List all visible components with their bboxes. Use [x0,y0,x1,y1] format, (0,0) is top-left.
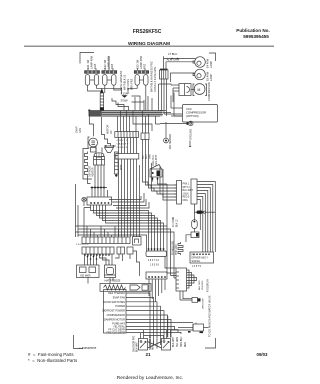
lamp indicator [82,197,86,206]
label deodorizer [173,241,178,255]
svg-text:FAN: FAN [79,128,82,133]
svg-text:FRS26KF5C: FRS26KF5C [133,29,162,35]
thermistor sensor [164,122,169,143]
wire thermostat feeds [102,117,111,146]
svg-text:LAMP 40W: LAMP 40W [139,55,143,69]
wire bulb E5 feed [166,62,195,82]
svg-text:375W: 375W [121,98,128,102]
label door switch 2 [150,335,155,350]
wire lamp3 drops [128,85,137,94]
label wire harness notes [119,71,134,90]
label bulb E4 [206,58,214,68]
defrost heater bracket [83,149,92,180]
svg-text:TO ICE MAKER AND WATER VALVE: TO ICE MAKER AND WATER VALVE [209,295,212,337]
svg-text:COMPRESSOR: COMPRESSOR [107,313,126,317]
label LT BLU [168,52,177,56]
lamp E23 [134,68,149,85]
label defrost heater [89,165,95,177]
svg-text:HAT FREEZE: HAT FREEZE [105,279,121,283]
relay ice box [77,265,100,278]
node bar A pin dots [84,254,110,256]
central connector block upper [115,132,139,138]
label evap fan [76,126,83,133]
svg-text:SW DOOR FRZ: SW DOOR FRZ [134,335,136,352]
svg-text:YEL RED: YEL RED [202,280,204,290]
svg-text:LT BLU: LT BLU [168,52,177,56]
svg-text:E21 1W: E21 1W [86,59,90,69]
connector P1 box right [191,179,197,204]
svg-text:1 BLK: 1 BLK [183,193,190,195]
connector strip right of thermostat [115,152,119,177]
svg-text:Rendered by LeadVenture, Inc.: Rendered by LeadVenture, Inc. [117,375,183,381]
wire heater-thermostat drops [88,176,91,184]
svg-text:E22 1W: E22 1W [103,59,107,69]
svg-text:P5 MULLION: P5 MULLION [173,241,175,255]
bulb lamp E4 [193,57,205,68]
wire interface loops [187,270,197,288]
svg-text:HEATER: HEATER [92,167,95,177]
node fuse arrow [122,95,128,98]
wire trunk band [89,111,164,117]
svg-text:ORG DISP: ORG DISP [203,298,205,309]
label door switch 1 [134,335,139,352]
wire P1 loops [197,182,215,253]
svg-text:DEFROST POWER: DEFROST POWER [103,309,126,313]
svg-text:BLK: BLK [143,154,145,159]
defrost heater zigzag [85,152,88,177]
label fan motor [107,125,114,134]
svg-text:BLK-WHT: BLK-WHT [136,341,138,352]
label freezer lamp 3 [136,55,147,69]
wire bar A drops [85,251,140,276]
wire connector interlinks [119,138,137,154]
label riser bundle [120,164,123,170]
control board box [104,290,127,334]
svg-text:DOOR SWITCHES: DOOR SWITCHES [103,300,125,304]
capacitor pill [192,204,198,232]
svg-text:YEL GRN: YEL GRN [177,337,179,347]
label freezer lamp 2 [103,55,114,69]
harness freezer bar [100,284,151,292]
svg-text:* = Non-Illustrated Parts: * = Non-Illustrated Parts [28,358,78,363]
label ground [190,129,193,140]
label display feed [203,298,205,309]
connector E8 vertical [100,88,104,112]
wire riser bundle center [119,159,140,237]
label driver pins [192,266,202,268]
svg-text:BLK-WHT: BLK-WHT [173,336,175,347]
connector wide J1 [82,237,130,244]
connector bar B2 [127,247,133,254]
svg-text:FRZ: FRZ [93,64,97,69]
label right bundle [152,154,158,166]
label harn freezer [105,279,121,283]
svg-text:# = Fast-moving Parts: # = Fast-moving Parts [28,352,74,357]
svg-text:LAMP: LAMP [209,74,213,81]
svg-text:1 9 5 3 8: 1 9 5 3 8 [150,265,160,267]
node main junction [88,109,90,111]
label freezer lamp 1 [86,55,97,69]
svg-text:EVAP FAN: EVAP FAN [113,295,125,299]
wire bar L2 drops [149,279,165,302]
svg-text:L-5995395455: L-5995395455 [80,346,97,350]
junction box small [186,232,199,242]
connector P1 box left [175,181,182,205]
svg-text:CONN LT 3.15A 125V: CONN LT 3.15A 125V [153,66,157,92]
svg-text:WHT-BLK HARNESS FRZ: WHT-BLK HARNESS FRZ [150,61,154,92]
wire band to switch conn [160,110,166,112]
svg-text:FRZ: FRZ [143,64,147,69]
wire compressor drop left [170,96,172,109]
svg-text:P1 CONN: P1 CONN [173,216,175,227]
label P1 wire colors [183,184,194,203]
svg-text:E23 1W: E23 1W [136,59,140,69]
label bar L1 pins [148,260,160,267]
svg-text:1 3 5 7 9: 1 3 5 7 9 [192,266,202,268]
svg-text:5995395455: 5995395455 [243,34,269,39]
driver assembly box [190,252,214,263]
alarm buzzer [150,165,167,185]
wire fuse steps [112,98,124,111]
central connector block lower [116,154,139,160]
connector bar B1 [117,247,125,254]
door switch 2 [162,339,171,351]
label doc number [80,346,97,350]
connector display feed [180,296,201,302]
wire fan feed [93,124,95,136]
svg-text:BLK ORG: BLK ORG [199,280,201,290]
svg-text:Publication No.: Publication No. [236,28,269,33]
svg-text:PNK 1: PNK 1 [183,184,190,186]
compressor motor [191,84,207,96]
svg-text:E5 40W: E5 40W [206,71,210,81]
svg-text:DEF THERMO: DEF THERMO [108,291,125,295]
wire interface feeds [165,257,183,301]
label ALM GRN [167,58,180,62]
svg-text:ORG: ORG [183,200,188,202]
lamp E21 [85,68,100,85]
wire mesh horizontals [76,184,175,278]
svg-text:3.15A: 3.15A [121,91,128,95]
svg-text:GROUND: GROUND [190,129,193,140]
svg-text:WHT: WHT [146,153,148,159]
svg-text:COMPRESSOR: COMPRESSOR [207,82,211,101]
svg-text:E4 40W: E4 40W [206,58,210,68]
label P1 vertical [173,216,178,227]
label interface vertical [207,279,210,292]
svg-text:ICE MKR: ICE MKR [80,275,91,278]
fuse 3.15A [121,91,128,95]
door switch 1 [139,339,148,351]
ground stem [189,141,191,147]
top-left corner bracket [80,53,94,64]
svg-text:WHT-BLK 12: WHT-BLK 12 [123,74,127,90]
label bulb E5 [206,71,214,81]
svg-text:4 8 3 7 2 6: 4 8 3 7 2 6 [148,260,160,262]
wire staircase to P1 [143,160,177,200]
wire relay drops [88,278,113,284]
label compressor [207,82,211,101]
wire speaker drop [166,184,168,226]
svg-text:RED 5: RED 5 [183,197,190,199]
connector bar A [82,247,114,254]
interface board box [176,268,187,291]
connector small right [141,133,149,160]
bulb lamp E5 [193,69,205,80]
fuse 375W [121,98,128,102]
label joint wires [173,336,187,347]
connector bar L1 [146,248,167,256]
svg-text:BLU-WHT: BLU-WHT [183,190,194,192]
connector light switch [160,69,169,79]
svg-text:(OPTION): (OPTION) [186,114,199,118]
svg-text:WHT 2: WHT 2 [183,187,191,189]
relay overload box [171,84,191,103]
svg-text:DC: DC [110,130,113,134]
PTC compressor box [171,105,218,123]
defrost thermostat [94,153,105,165]
top-right corner bracket [209,53,216,61]
harness joint connector [178,324,209,333]
svg-text:21: 21 [145,352,151,357]
heater deodorizer zigzag [178,242,183,255]
node door switch conn [87,197,112,205]
svg-text:LAMP: LAMP [209,61,213,68]
svg-text:BLK 12: BLK 12 [176,219,178,227]
svg-text:ORG HARNESS: ORG HARNESS [119,71,123,90]
bottom-right corner bracket [205,338,216,348]
svg-text:2 4 6 8 10 12: 2 4 6 8 10 12 [76,244,90,246]
ground ring terminal [160,121,193,126]
svg-text:ORG BLU: ORG BLU [181,336,183,347]
wire board row outputs [126,293,193,345]
bottom-left corner bracket [74,335,84,349]
label bar A id [76,244,90,246]
wire fuse area drops [140,96,152,111]
svg-text:RED-WHT: RED-WHT [155,154,158,166]
wire bottom runs [141,316,197,349]
thermal cutoff blob [195,211,216,214]
svg-text:FRZ CLG DEFR: FRZ CLG DEFR [106,330,125,334]
svg-text:LAMP 40W: LAMP 40W [107,55,111,69]
svg-text:SIGNAL: SIGNAL [192,260,201,263]
svg-text:LAMP 40W: LAMP 40W [90,55,94,69]
wire switch drops [161,79,163,112]
label interface pins [199,280,204,290]
svg-text:RED: RED [185,342,187,347]
svg-text:DAMPER MOTOR: DAMPER MOTOR [104,317,125,321]
wire lamp1 right to lamp2 [97,85,122,94]
label thermistor [170,134,172,149]
junction row dots [91,187,150,209]
connector bar L2 [146,272,167,279]
label connector pin rows [117,140,129,149]
wire lamp2 drops [104,85,106,93]
svg-text:POWER: POWER [115,304,125,308]
svg-text:P3 DISPLAY: P3 DISPLAY [207,279,210,292]
svg-text:FRZ: FRZ [110,64,114,69]
connector J1 end plug [133,237,142,246]
svg-text:WHT: WHT [120,164,123,170]
svg-text:09/03: 09/03 [257,352,269,357]
label to icemaker vertical [209,295,212,337]
svg-text:FRZ SENSOR: FRZ SENSOR [170,134,172,149]
wire bulb E4 feed [164,56,196,70]
label small connector pins [143,153,152,159]
label board rows [103,291,126,334]
wire band risers [117,116,119,131]
svg-text:M: M [198,88,201,92]
wire lamp1 left drop [88,85,102,91]
header rule [24,46,274,47]
label harness right note [150,61,158,92]
svg-text:HTR 120V: HTR 120V [176,244,178,255]
relay aux box [105,265,116,278]
lamp E22 [102,56,117,85]
evap fan motor [88,137,98,152]
